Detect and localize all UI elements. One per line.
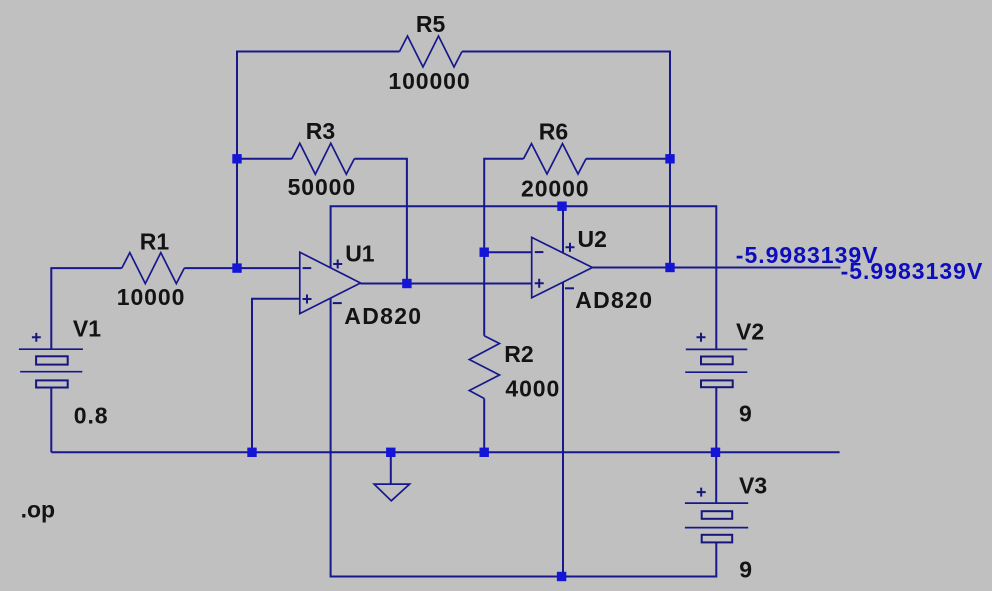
svg-text:10000: 10000 <box>117 284 185 310</box>
node K <box>711 448 720 457</box>
svg-text:R5: R5 <box>416 11 446 37</box>
voltage source V1 <box>19 333 83 388</box>
svg-text:AD820: AD820 <box>344 303 422 329</box>
svg-text:0.8: 0.8 <box>74 402 109 428</box>
svg-text:-5.9983139V: -5.9983139V <box>841 258 984 284</box>
wire <box>331 206 717 349</box>
svg-text:U2: U2 <box>578 226 607 252</box>
node G <box>665 263 674 272</box>
node L <box>557 572 566 581</box>
svg-text:.op: .op <box>21 497 56 523</box>
resistor R1 <box>122 253 185 284</box>
svg-text:50000: 50000 <box>288 174 356 200</box>
op-amp U2 <box>532 237 593 297</box>
wire <box>462 52 670 268</box>
svg-text:20000: 20000 <box>521 175 589 201</box>
svg-text:V2: V2 <box>736 319 764 345</box>
wire <box>484 159 523 252</box>
node H <box>247 448 256 457</box>
op-amp U1 <box>300 252 361 313</box>
wire <box>331 298 717 577</box>
svg-text:4000: 4000 <box>505 376 560 402</box>
wire <box>483 252 485 336</box>
resistor R3 <box>292 143 355 174</box>
resistor R5 <box>400 36 463 67</box>
node I <box>386 448 395 457</box>
resistor R2 <box>469 336 499 399</box>
svg-text:R1: R1 <box>140 229 170 255</box>
node A <box>232 154 241 163</box>
wire <box>51 451 839 453</box>
wire <box>361 283 532 285</box>
svg-text:V1: V1 <box>73 316 101 342</box>
node D <box>480 248 489 257</box>
wire <box>715 452 717 503</box>
wire <box>237 158 292 160</box>
wire <box>51 268 122 349</box>
wire <box>354 159 407 284</box>
wire <box>562 282 564 576</box>
svg-text:9: 9 <box>739 557 753 583</box>
wire <box>252 299 300 453</box>
wire <box>562 206 564 253</box>
ground <box>374 452 410 501</box>
node C <box>402 279 411 288</box>
node F <box>665 154 674 163</box>
svg-text:R3: R3 <box>306 118 335 144</box>
voltage source V2 <box>685 333 747 387</box>
voltage source V3 <box>685 488 748 543</box>
svg-text:AD820: AD820 <box>575 287 653 313</box>
wire <box>715 387 717 452</box>
wire <box>484 251 532 253</box>
svg-text:9: 9 <box>739 401 753 427</box>
svg-text:R6: R6 <box>539 119 568 145</box>
svg-text:U1: U1 <box>345 241 375 267</box>
wire <box>50 388 52 453</box>
wire <box>237 52 400 269</box>
node B <box>232 263 241 272</box>
wire <box>184 267 299 269</box>
resistor R6 <box>524 144 587 174</box>
wire <box>592 267 840 269</box>
node E <box>557 202 566 211</box>
wire <box>586 158 670 160</box>
node J <box>480 448 489 457</box>
wire <box>483 399 485 453</box>
svg-text:100000: 100000 <box>388 68 470 94</box>
svg-text:V3: V3 <box>739 473 767 499</box>
svg-text:R2: R2 <box>504 341 533 367</box>
